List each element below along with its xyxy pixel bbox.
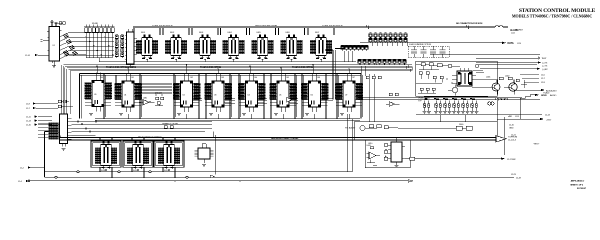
vertical pair bus left of analog [325, 49, 345, 100]
svg-text:MODELS TTN4096C / TRN7980C / C: MODELS TTN4096C / TRN7980C / CLN6680C [512, 13, 593, 18]
resistor pack RP1 row of boxes [84, 23, 115, 33]
svg-text:SEE INTERCONNECT DETAIL: SEE INTERCONNECT DETAIL [271, 137, 299, 140]
wire grid matrix [69, 32, 137, 61]
under-IC bus [95, 114, 360, 120]
main audio bus with arrow [60, 136, 517, 142]
vertical drops module7 to bottom bus [210, 114, 352, 178]
diode array row [418, 97, 494, 114]
svg-text:C43: C43 [221, 77, 224, 79]
svg-text:AUDIO: AUDIO [550, 94, 557, 97]
small parts above connector RC group [50, 100, 73, 108]
resistor network RN4 [358, 59, 406, 65]
svg-text:ALARM: ALARM [510, 29, 518, 32]
left vertical bus [45, 132, 49, 178]
svg-text:TO APLS FOR OPTION: TO APLS FOR OPTION [292, 66, 313, 69]
svg-text:AEPS-34063-O: AEPS-34063-O [571, 179, 585, 182]
svg-text:TO/FROM: TO/FROM [508, 137, 517, 139]
optocoupler module M7 [310, 35, 332, 60]
aux line [430, 55, 547, 61]
optocoupler module M3 [194, 35, 216, 60]
svg-text:C47: C47 [352, 77, 355, 79]
data line to J2 [360, 42, 521, 46]
svg-text:C41: C41 [131, 77, 134, 79]
left input labels group 2 [26, 115, 52, 126]
svg-text:R1-R8: R1-R8 [92, 23, 99, 25]
IC U12 [205, 73, 233, 112]
inductor L1 [495, 94, 557, 100]
relay K4 small [195, 144, 214, 167]
bundle left turn-down [62, 65, 71, 114]
svg-text:(+) RX: (+) RX [542, 69, 548, 71]
parts in lower analog frame [360, 125, 472, 131]
svg-text:AUX AUDIO: AUX AUDIO [546, 89, 557, 92]
ground symbols under middle ICs [89, 113, 344, 115]
IC U9 [85, 73, 113, 112]
svg-text:TO APLS FOR OPTION: TO APLS FOR OPTION [152, 24, 173, 27]
svg-text:J2-17 MIC: J2-17 MIC [507, 159, 516, 161]
feed bundle to bottom modules [72, 122, 213, 136]
power symbols above U1 [50, 21, 65, 27]
small transistor Q3 [448, 84, 458, 95]
right edge J2 pin labels [520, 75, 550, 120]
svg-text:C40: C40 [100, 77, 103, 79]
optocoupler module M6 [281, 35, 303, 60]
capacitor column C6-C10 [121, 34, 124, 58]
bottom bus lines [45, 171, 522, 180]
svg-text:VR401–VR410: VR401–VR410 [418, 98, 431, 100]
svg-text:J2-25: J2-25 [511, 32, 515, 34]
svg-text:+9.6V: +9.6V [546, 120, 552, 122]
reference designators top modules [141, 32, 320, 34]
bundle junction dots [96, 64, 350, 74]
op-amp U30 [367, 147, 381, 166]
capacitor labels above middle ICs [100, 77, 355, 79]
top interconnect bus [133, 23, 524, 34]
svg-text:DATA: DATA [508, 42, 514, 45]
fan-out wires from U1 [60, 33, 87, 60]
IC U8 interface [59, 114, 72, 150]
labels under middle row [162, 122, 355, 129]
svg-text:TO APLS FOR OPTION BOARDS: TO APLS FOR OPTION BOARDS [106, 66, 137, 69]
left input labels J1 [26, 102, 50, 110]
line to mic out [405, 157, 516, 161]
IC U20 [452, 68, 476, 86]
svg-text:C42: C42 [190, 77, 193, 79]
IC U14 [270, 73, 298, 112]
relay module B2 [127, 141, 149, 170]
routing frame around middle ICs [80, 74, 363, 119]
svg-text:NO CONNECTION FOR SCM: NO CONNECTION FOR SCM [456, 23, 482, 25]
input label J1 [25, 40, 49, 58]
transistor Q2 [507, 79, 517, 94]
capacitor column C1-C5 [115, 34, 118, 58]
drops from resistor networks [344, 42, 407, 65]
inverter U17 [139, 100, 155, 105]
optocoupler module M1 [136, 35, 158, 60]
analog box extra parts [361, 64, 484, 93]
op-amp block frame [365, 140, 410, 168]
transistor Q1 [490, 80, 500, 95]
svg-text:(–) TX: (–) TX [542, 66, 548, 68]
bottom row label [138, 136, 162, 139]
relay module B3 [158, 141, 180, 170]
IC U10 [115, 73, 143, 112]
svg-text:SPKR: SPKR [541, 95, 547, 97]
small parts right of module7 [366, 74, 381, 122]
bottom long wire [27, 180, 413, 183]
svg-text:(+) TX: (+) TX [542, 63, 548, 65]
svg-text:J2-1,J2-3: J2-1,J2-3 [508, 140, 517, 142]
IC U16 [336, 73, 364, 112]
svg-text:GND: GND [509, 127, 514, 129]
relay module B1 [95, 141, 117, 170]
optocoupler module M5 [252, 35, 274, 60]
svg-text:TO APLS FOR OPTION: TO APLS FOR OPTION [322, 24, 343, 27]
svg-text:C45: C45 [286, 77, 289, 79]
title block [512, 8, 596, 18]
analog bus pair [358, 98, 540, 100]
right edge outputs TX [476, 61, 548, 71]
svg-text:J2-26: J2-26 [517, 43, 521, 45]
reference designators bottom modules [101, 170, 169, 172]
zener and inverter near 390 [386, 93, 400, 107]
wire under top modules [137, 59, 356, 61]
lower analog frame [354, 122, 497, 140]
optocoupler module M4 [223, 35, 245, 60]
svg-text:R21 R22: R21 R22 [155, 93, 163, 95]
vertical feeders to lower frame [440, 100, 504, 155]
bundle right turn-down [404, 62, 412, 72]
value marks under top modules [142, 57, 326, 59]
IC U31 [367, 138, 406, 168]
analog section frame [416, 61, 498, 96]
svg-text:TEST: TEST [542, 58, 548, 60]
resistor block RN5 [38, 123, 59, 140]
reference designators middle ICs [94, 94, 348, 97]
IC U15 [301, 73, 329, 112]
right labels lower [509, 124, 540, 176]
optocoupler module M2 [165, 35, 187, 60]
svg-text:SCCM-UP: SCCM-UP [577, 188, 587, 190]
resistor network RN3 two rows [369, 33, 407, 44]
misc part labels [143, 76, 510, 146]
inter-IC wires [193, 97, 333, 103]
svg-text:SHEET 1 OF 2: SHEET 1 OF 2 [570, 185, 584, 187]
svg-text:“TEST”: “TEST” [533, 144, 540, 146]
resistor R30 R31 [472, 77, 527, 88]
top small parts in analog section [416, 63, 460, 70]
feed bundle ticks [78, 120, 96, 132]
dashed option block with jumpers JU1-JU4 [408, 44, 449, 57]
small parts on feed bundle [164, 123, 173, 129]
IC U1 top-left decoder [47, 27, 62, 64]
svg-text:C44: C44 [254, 77, 257, 79]
edge labels J1 bottom [18, 166, 45, 183]
IC U11 [173, 73, 201, 112]
discrete parts R20 C20 [155, 94, 164, 105]
lines below analog box [416, 114, 552, 121]
svg-text:C46: C46 [317, 77, 320, 79]
IC U13 [238, 73, 266, 112]
svg-text:SEE NOTES AND DETAIL: SEE NOTES AND DETAIL [255, 24, 279, 27]
svg-text:J2-13: J2-13 [515, 116, 519, 118]
aux output arrow [516, 89, 557, 93]
sheet reference note bottom right [570, 179, 586, 189]
module loops to bus [134, 28, 334, 35]
interconnect bundle U10 to U11 [134, 83, 172, 94]
resistor network RN2 [341, 45, 368, 51]
ground below U1 [52, 61, 56, 68]
middle wire bundle [64, 65, 413, 71]
svg-text:JU401 JUMPER OPTION: JU401 JUMPER OPTION [409, 44, 432, 46]
routing loops around bottom modules [91, 138, 184, 178]
IC U2 buffer [125, 29, 137, 67]
